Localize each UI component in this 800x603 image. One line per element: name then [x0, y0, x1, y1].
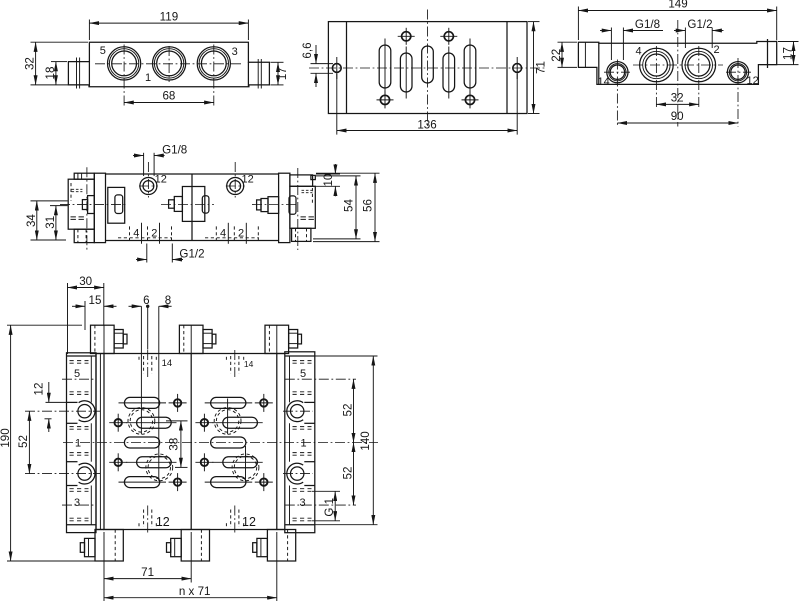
svg-text:17: 17 [781, 47, 794, 60]
view2 slot1 centerline [384, 39, 386, 95]
view2 left mounting hole [332, 57, 341, 79]
view5 station2 thread circle port4 [214, 408, 241, 435]
svg-text:136: 136 [417, 119, 436, 132]
svg-text:3: 3 [299, 497, 305, 509]
svg-text:3: 3 [74, 497, 80, 509]
view4 right end thread dashes bottom [301, 217, 315, 220]
view4 right end rounded nut [289, 196, 296, 214]
svg-text:22: 22 [550, 49, 563, 62]
view5 station1 port12 hidden [144, 506, 152, 534]
view3 port12 vertical centerline [737, 58, 739, 127]
view4 manifold band bottom edge [106, 240, 279, 242]
view5 left block 3 [62, 486, 96, 525]
view5 station1 slot row4 [126, 457, 177, 468]
view3 port4 vertical centerline [655, 46, 657, 108]
view1 port 1 circle [153, 47, 186, 80]
view2 right end plate line [506, 22, 508, 114]
view5 dim 12 [32, 382, 66, 432]
view3 port14 horizontal centerline [604, 71, 630, 73]
view4 bracket1 rounded nut [115, 195, 123, 214]
view4 bracket station1 [108, 187, 125, 223]
svg-text:18: 18 [44, 67, 57, 80]
view5 station1 slot row1 [119, 397, 167, 408]
svg-text:4: 4 [636, 46, 642, 58]
view5 dim n x 71 [104, 532, 277, 601]
view5 top strip 1 [91, 325, 128, 353]
view4 left end thread dashes top [71, 183, 82, 201]
view2 left end plate line [346, 22, 348, 114]
svg-text:4: 4 [220, 228, 226, 240]
view3 left end plate line [598, 43, 600, 84]
view5 station1 slot row2 [126, 417, 177, 428]
view2 dim 6,6 [301, 42, 333, 87]
view3 port12 horizontal centerline [726, 71, 751, 73]
view1 left tab tie-rod lines [76, 58, 78, 89]
view5 station2 slot row5 [205, 477, 253, 488]
view5 top strip 3 [265, 325, 302, 353]
view2 right mounting hole [513, 57, 522, 79]
view5 station divider [190, 354, 192, 530]
view2 slot 3 [422, 46, 434, 83]
svg-text:6: 6 [143, 294, 149, 307]
view5 bottom strip 3 [253, 530, 296, 562]
view3 port 4 circle G1/2 [640, 48, 674, 82]
view4 left tie-rod bolt head [82, 200, 87, 210]
view5 left end plate inner line [99, 354, 101, 530]
view2 plate outline [328, 22, 527, 114]
view2 dim 136 [337, 74, 517, 135]
view2 dim 71 [528, 22, 548, 114]
view5 station1 port14 outer ticks [138, 357, 140, 360]
view3 port2 vertical centerline [698, 46, 700, 108]
view5 left boss upper [79, 401, 95, 422]
view4 left end vertical centerline [86, 167, 88, 251]
svg-text:3: 3 [232, 46, 238, 58]
view4 right horizontal centerline [252, 204, 296, 206]
view4 right end foot dashed holes [295, 228, 297, 241]
view5 station1 thread circle port2 [146, 454, 173, 481]
svg-text:12: 12 [32, 383, 45, 396]
view4 port 12 circle station2 [226, 162, 245, 198]
view5 station2 port12 hidden [231, 506, 239, 534]
view2 slot 2 [400, 53, 412, 92]
view4 dim 31 [44, 206, 67, 240]
view5 right tie-rod hole lower [291, 467, 304, 480]
svg-text:30: 30 [79, 275, 92, 288]
svg-text:2: 2 [238, 228, 244, 240]
svg-text:12: 12 [242, 515, 256, 529]
view1 port 3 circle [197, 47, 230, 80]
view5 station1 slot row3 [124, 437, 159, 448]
view3 port 2 circle G1/2 [682, 48, 716, 82]
view1 right tab joint line [247, 62, 249, 87]
view5 right boss upper [287, 401, 303, 422]
view2 screw hole top-right [440, 28, 457, 45]
view1 left tab joint line [88, 62, 90, 87]
view5 station2 screw holes [195, 394, 272, 491]
view5 right block 1 [290, 423, 315, 461]
view4 left end top tab [74, 173, 94, 179]
view2 slot2 centerline [405, 47, 407, 99]
view3 large ports horizontal centerline [633, 64, 723, 66]
view3 body outline [578, 42, 776, 85]
view5 station2 slot row4 [212, 457, 263, 468]
view3 dim 32 [656, 91, 698, 104]
svg-text:149: 149 [668, 0, 687, 11]
view5 dim 6 and 8 [129, 294, 172, 481]
view5 top strip 2 [179, 325, 216, 353]
svg-text:6,6: 6,6 [301, 42, 314, 58]
view4 dim 34 [25, 201, 68, 240]
view4 dim 56 [313, 173, 380, 241]
view5 left block 5 [62, 356, 96, 402]
view5 dim 30 [68, 275, 104, 354]
view4 left end foot dashed holes [77, 229, 79, 242]
view5 station2 port14 hidden [231, 350, 239, 378]
view1 horizontal centerline [95, 63, 243, 65]
view1 port5 vertical centerline [123, 45, 125, 107]
view4 port 12 circle station1 [139, 162, 158, 198]
view4 dim G1/8 [133, 144, 187, 176]
view5 dim 52 right upper [342, 379, 355, 442]
view4 station2 hidden port lines [205, 223, 259, 244]
view1 body outline with end tabs [68, 42, 269, 87]
view5 dim 52 left [17, 411, 30, 473]
svg-text:52: 52 [342, 404, 355, 417]
view4 middle bolt tip [169, 200, 175, 208]
view5 right end plate top edge [277, 353, 285, 355]
view3 dim 90 [617, 110, 738, 123]
view5 right block 5 [285, 356, 356, 402]
view5 station1 port14 hidden [144, 350, 152, 378]
view5 station1 slot row5 [119, 477, 167, 488]
view5 left body edge extension through top strip [103, 325, 105, 353]
view4 dim G1/2 [136, 244, 205, 263]
view4 left end foot [74, 229, 94, 242]
view4 right end block [290, 186, 315, 228]
view4 right clamp strip [279, 173, 290, 242]
view5 station2 port12 outer ticks [225, 523, 227, 526]
view3 left end tie-rod line [584, 42, 586, 67]
view5 left boss lower [79, 463, 95, 484]
svg-text:G1/8: G1/8 [162, 144, 187, 157]
svg-text:52: 52 [17, 435, 30, 448]
view4 middle bracket [182, 187, 204, 222]
svg-text:12: 12 [155, 174, 167, 186]
view4 station1 hidden port lines [118, 223, 172, 244]
view5 dim 52 right lower [342, 443, 355, 506]
view5 left end plate line [95, 354, 97, 530]
view5 right block 3 [285, 486, 356, 525]
view2 screw hole top-left [398, 28, 415, 45]
view5 left column outline [67, 353, 97, 533]
svg-text:14: 14 [597, 76, 609, 88]
view4 middle rounded nut [202, 196, 209, 213]
view5 station2 slot row2 [212, 417, 263, 428]
view2 screw hole bottom-left [377, 91, 394, 108]
view5 dim 15 [72, 294, 117, 330]
svg-text:52: 52 [342, 467, 355, 480]
view5 body outline [104, 354, 277, 530]
view2 slot 1 [379, 45, 391, 88]
svg-text:15: 15 [89, 294, 102, 307]
svg-text:2: 2 [714, 44, 720, 56]
view4 right end vertical centerline [297, 168, 299, 250]
view3 dim G1/8 [600, 18, 663, 60]
view2 slot4 centerline [448, 47, 450, 99]
view3 port14 vertical centerline [616, 60, 618, 127]
svg-text:G1/2: G1/2 [179, 247, 204, 260]
view4 middle bolt nut [174, 197, 182, 212]
view3 right tab joint line [767, 39, 769, 68]
view5 right boss lower [287, 463, 303, 484]
svg-text:4: 4 [133, 228, 139, 240]
view4 right end top tab [290, 175, 313, 186]
view5 left tie-rod hole upper [78, 405, 91, 418]
view5 left tie-rod hole lower [78, 467, 91, 480]
view4 right bolt tip [257, 200, 261, 210]
svg-text:14: 14 [244, 359, 254, 369]
view5 station1 thread circle port4 [128, 408, 155, 435]
view5 bottom strip 2 [167, 530, 210, 562]
view4 station divider line [191, 174, 193, 241]
svg-text:12: 12 [241, 174, 253, 186]
svg-text:32: 32 [24, 57, 37, 70]
svg-text:1: 1 [145, 72, 151, 84]
svg-text:71: 71 [141, 566, 154, 579]
view4 right end foot [292, 228, 311, 241]
view5 left end plate top edge [96, 353, 104, 355]
svg-text:68: 68 [162, 90, 175, 103]
view5 station2 slot row1 [205, 397, 253, 408]
svg-text:5: 5 [74, 368, 80, 380]
view4 left end thread dashes bottom [71, 217, 85, 220]
view4 right end thread dashes top [302, 188, 313, 204]
svg-text:90: 90 [671, 110, 684, 123]
svg-text:1: 1 [75, 437, 81, 449]
view4 right bolt nut [268, 197, 279, 214]
view5 dim 140 [315, 356, 378, 525]
view5 bottom strip 1 [80, 530, 123, 562]
view5 divider extension through top strip [190, 325, 192, 353]
svg-text:n x 71: n x 71 [179, 585, 211, 598]
svg-text:G1/8: G1/8 [635, 18, 660, 31]
view5 dim 71 [104, 532, 191, 601]
view3 dim 22 [550, 42, 577, 67]
view5 station1 port12 outer ticks [138, 523, 140, 526]
view3 dim G1/2 [674, 18, 724, 48]
view5 dim G1 [312, 491, 340, 521]
view5 dim 190 [0, 325, 95, 561]
svg-text:17: 17 [276, 67, 289, 80]
svg-text:2: 2 [151, 228, 157, 240]
svg-text:12: 12 [746, 75, 758, 87]
svg-text:14: 14 [162, 358, 173, 369]
view4 dim 54 [313, 176, 361, 239]
view2 slot 5 [464, 45, 476, 88]
view1 dim 119 [89, 10, 248, 40]
svg-text:G 1: G 1 [323, 498, 336, 517]
view5 station2 thread circle port2 [232, 454, 259, 481]
view5 station2 slot row3 [211, 437, 246, 448]
svg-text:119: 119 [160, 10, 178, 23]
view4 right bolt mid [261, 199, 268, 212]
view5 main horizontal centerline [63, 442, 378, 444]
view5 right hole centerlines [283, 410, 313, 412]
view4 right end tab notch [311, 175, 315, 179]
view4 left tie-rod nut [88, 196, 95, 214]
svg-text:5: 5 [300, 368, 306, 380]
view1 port3 vertical centerline [213, 45, 215, 107]
svg-text:32: 32 [671, 91, 684, 104]
svg-text:31: 31 [44, 216, 57, 229]
svg-text:190: 190 [0, 428, 12, 447]
svg-text:34: 34 [25, 214, 38, 227]
view5 station2 port14 outer ticks [225, 357, 227, 360]
view2 horizontal centerline [309, 67, 546, 69]
svg-text:56: 56 [362, 199, 375, 212]
view1 dim 32 [24, 42, 88, 85]
svg-text:12: 12 [156, 515, 170, 529]
view3 mid station centerline [677, 20, 679, 127]
view1 dim 68 [124, 90, 214, 103]
view4 left end block [68, 179, 94, 229]
view1 dim 17 [270, 62, 289, 85]
view1 port1 vertical centerline [168, 46, 170, 82]
view2 vertical centerline [427, 10, 429, 128]
svg-text:8: 8 [165, 294, 171, 307]
view4 left clamp strip [94, 173, 105, 242]
view1 port 5 circle [108, 47, 141, 80]
svg-text:71: 71 [535, 61, 548, 74]
view5 station1 screw holes [109, 394, 186, 491]
view5 right column outline [285, 352, 315, 533]
view5 right tie-rod hole upper [291, 405, 304, 418]
svg-text:1: 1 [300, 437, 306, 449]
view4 dim 10 [313, 164, 340, 196]
view5 right end plate bottom edge [277, 529, 285, 531]
view4 left horizontal centerline [60, 204, 127, 206]
view5 left block 1 [67, 423, 92, 461]
view5 right body edge extension through top strip [276, 325, 278, 353]
svg-text:54: 54 [343, 199, 356, 212]
view1 dim 18 [44, 62, 67, 85]
view2 slot5 centerline [469, 39, 471, 95]
view4 manifold band top edge [106, 173, 279, 175]
view3 dim 17 [760, 42, 799, 65]
view5 dim 38 [166, 421, 188, 468]
view5 station2 thread circle centerlines [227, 399, 229, 435]
view2 slot 4 [443, 53, 455, 92]
view3 port 14 circle G1/8 [607, 62, 628, 83]
view1 right tab tie-rod lines [257, 59, 259, 89]
view4 middle horizontal centerline [161, 204, 214, 206]
svg-text:5: 5 [100, 45, 106, 57]
svg-text:140: 140 [359, 431, 372, 450]
svg-text:38: 38 [168, 438, 181, 451]
view5 left hole centerlines [25, 410, 100, 412]
svg-text:G1/2: G1/2 [687, 18, 712, 31]
view5 left end plate bottom edge [96, 529, 104, 531]
view2 screw hole bottom-right [462, 91, 479, 108]
view3 port 12 circle G1/8 [727, 62, 748, 83]
view3 dim 149 [578, 0, 776, 40]
